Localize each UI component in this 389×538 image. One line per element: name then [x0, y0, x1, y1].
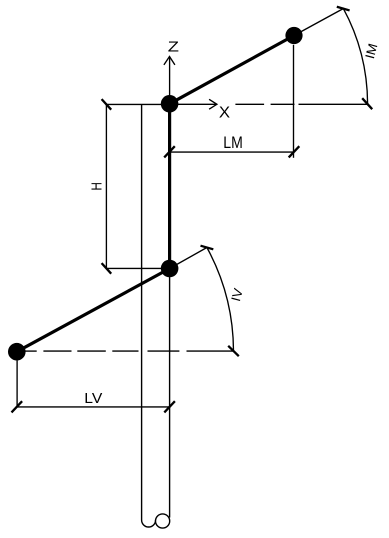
node upper wire end	[285, 27, 302, 44]
svg-text:Z: Z	[168, 38, 179, 55]
Z axis arrowhead	[164, 57, 175, 65]
dash 2	[43, 350, 71, 352]
Z axis line	[169, 57, 171, 104]
H bottom tick	[102, 263, 112, 274]
LM right tick	[289, 146, 300, 157]
node lower wire end	[8, 343, 26, 361]
tick at wire M extension end	[337, 7, 350, 11]
wire V (lower sloped wire)	[17, 269, 170, 352]
mast bottom hook arc	[142, 520, 156, 527]
dash 3	[77, 350, 106, 352]
arc IV (angle of wire V)	[207, 248, 234, 352]
X axis dash segment 2	[271, 103, 295, 105]
dash 5	[148, 350, 180, 352]
arc IM (angle of wire M)	[343, 8, 368, 104]
X axis arrowhead	[209, 99, 217, 109]
X axis dash segment 1	[235, 103, 264, 105]
svg-text:H: H	[88, 182, 105, 191]
H dimension top extension line	[106, 103, 162, 105]
tick at wire V extension end	[201, 246, 214, 250]
svg-text:LV: LV	[84, 390, 102, 407]
dash 4	[112, 350, 138, 352]
mast left line	[141, 104, 143, 520]
X axis solid segment	[170, 103, 217, 105]
LV right tick	[164, 401, 175, 412]
node middle (wire junction)	[161, 260, 179, 278]
extension line from upper node down to LM dimension	[293, 45, 295, 158]
LM left tick	[164, 146, 175, 157]
H dimension bottom extension line	[106, 267, 162, 269]
dash 6	[187, 350, 234, 352]
svg-text:X: X	[219, 105, 231, 122]
tick at arc IM lower end	[362, 98, 372, 109]
svg-text:LM: LM	[223, 134, 243, 152]
mast right line	[169, 104, 171, 517]
tick at arc IV lower end	[228, 346, 239, 356]
dashed baseline of wire V: dash 1	[25, 350, 37, 352]
LV left tick	[12, 401, 23, 412]
LM dimension line	[170, 151, 294, 153]
wire M (upper sloped wire)	[170, 36, 294, 104]
X axis dash segment 3	[299, 103, 369, 105]
node origin (feed point)	[161, 95, 179, 113]
LV dimension line	[17, 406, 170, 408]
H dimension line	[105, 104, 107, 268]
mast bottom circle	[156, 514, 170, 528]
wire V extension line to angle tick	[170, 248, 207, 269]
H top tick	[102, 99, 112, 110]
LV left extension line	[16, 361, 18, 408]
wire vertical (between nodes)	[168, 104, 171, 269]
wire M extension line to angle tick	[294, 9, 343, 36]
